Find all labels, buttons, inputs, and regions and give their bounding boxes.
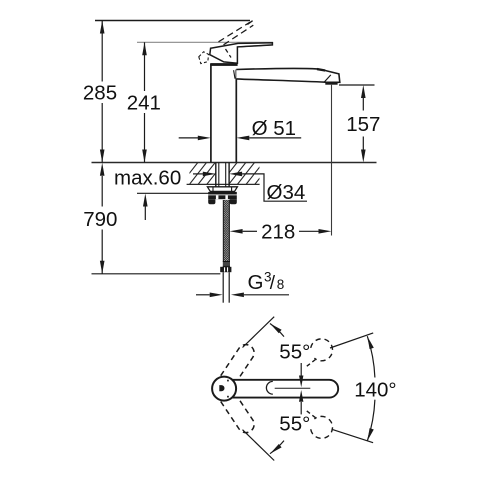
svg-text:max.60: max.60 (114, 167, 181, 190)
spout (236, 68, 339, 82)
top view: spout pill (222, 380, 338, 398)
svg-text:Ø 51: Ø 51 (252, 117, 296, 140)
svg-text:790: 790 (83, 208, 117, 231)
dash dots on circle (227, 380, 229, 382)
lever handle (210, 43, 273, 63)
faucet body column (211, 64, 236, 163)
angle 55 upper: side line (243, 317, 275, 348)
horseshoe washer (207, 187, 237, 192)
svg-text:157: 157 (346, 113, 380, 136)
lever raised pivot edge (dashed, inside lever) (226, 49, 232, 58)
extension line from spout outlet down (331, 85, 333, 236)
extension line top (285 max height) (95, 21, 253, 25)
svg-text:241: 241 (127, 92, 161, 115)
svg-text:285: 285 (83, 82, 117, 105)
top view: handle slot (219, 385, 224, 391)
spout top edge accent (317, 69, 325, 70)
svg-text:55°: 55° (279, 412, 310, 435)
dimension Ø34 (193, 173, 204, 175)
angle 55 lower: arc and arrows (270, 441, 284, 454)
svg-text:G: G (248, 271, 264, 294)
svg-text:140°: 140° (354, 378, 396, 401)
top view: spout rotated up (dashed tip) (311, 339, 333, 361)
aerator (325, 82, 337, 85)
dimension 241 (144, 42, 146, 162)
spout base fillet (234, 70, 235, 78)
countertop hatching right (220, 163, 281, 185)
top view: spout rotated down (dashed tip) (311, 416, 333, 438)
mounting shank (216, 163, 229, 187)
svg-text:8: 8 (277, 277, 285, 292)
top view: handle swung up-left (dashed, behind) (221, 345, 254, 385)
extension line bottom (790 hose length) (92, 273, 221, 275)
countertop bottom line (187, 183, 260, 185)
top view: faucet body circle (212, 377, 236, 401)
flexible braided hose (223, 200, 229, 261)
dimension 285 (101, 21, 103, 163)
countertop hatching left (172, 163, 233, 185)
hose connector nut G3/8 (220, 267, 231, 272)
countertop top line (92, 162, 377, 164)
mounting nut (208, 192, 237, 195)
svg-text:218: 218 (261, 221, 295, 244)
top view: handle swung down-left (dashed, behind) (221, 392, 254, 432)
angle 140: arc (367, 336, 375, 377)
dimension 218 (243, 230, 257, 232)
angle 140: side lines (330, 333, 373, 348)
angle 55 upper: arc and arrows (270, 324, 284, 337)
svg-text:/: / (270, 273, 276, 294)
hose ferrule (223, 261, 230, 267)
svg-text:55°: 55° (279, 341, 310, 364)
connection tube (223, 272, 229, 303)
svg-text:Ø34: Ø34 (267, 181, 306, 204)
extension line 241 (gray, lever rest height) (137, 41, 273, 43)
spout tip chamfer line (324, 75, 331, 82)
dimension 157 (339, 84, 375, 86)
top view: spout centerline (275, 387, 311, 389)
lever down position (dashed) (199, 52, 209, 64)
dimension Ø51 (179, 137, 199, 139)
dimension 790 (101, 176, 103, 274)
dimension max.60 (137, 192, 230, 194)
angle 55 lower: side line (243, 430, 275, 461)
top view: spout inner end cap (266, 381, 272, 394)
faucet dome cap bar (210, 63, 237, 66)
dimension G 3/8 (196, 294, 210, 296)
lever raised position (dashed) (219, 22, 254, 45)
